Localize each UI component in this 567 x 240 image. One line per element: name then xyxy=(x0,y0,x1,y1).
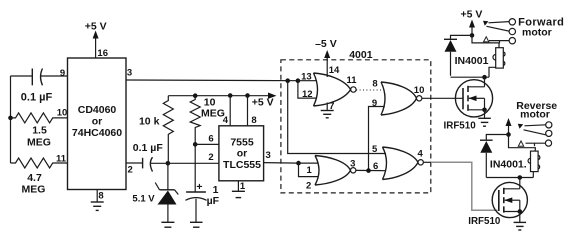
svg-text:16: 16 xyxy=(97,48,108,59)
resistor R4 10 MEG xyxy=(190,96,225,145)
svg-text:or: or xyxy=(92,116,103,128)
svg-text:3: 3 xyxy=(127,68,132,79)
svg-text:4.7: 4.7 xyxy=(27,172,42,184)
svg-text:IN4001: IN4001 xyxy=(455,55,489,67)
svg-text:11: 11 xyxy=(56,153,67,164)
wire U1 pin 3 to 4001 xyxy=(126,68,298,81)
svg-text:8: 8 xyxy=(98,191,103,202)
node source Q2 xyxy=(518,209,523,214)
terminal reverse bottom xyxy=(545,140,551,146)
svg-text:74HC4060: 74HC4060 xyxy=(72,127,122,139)
svg-text:MEG: MEG xyxy=(201,107,225,119)
svg-text:10 k: 10 k xyxy=(139,115,160,127)
svg-text:8: 8 xyxy=(251,115,256,126)
wire to gate U3C input 1 xyxy=(299,163,319,176)
NOR gate U3D xyxy=(383,147,424,180)
ground Q1 source xyxy=(478,110,491,126)
svg-text:–5 V: –5 V xyxy=(315,38,337,50)
resistor R3 10k xyxy=(139,96,173,164)
svg-text:2: 2 xyxy=(128,165,133,176)
svg-text:or: or xyxy=(237,148,248,160)
svg-text:6: 6 xyxy=(373,161,378,172)
svg-text:3: 3 xyxy=(265,150,270,161)
ground U1 pin 8 xyxy=(91,190,104,211)
capacitor C3 1uF electrolytic xyxy=(186,181,220,207)
node B junction R4/pin6 xyxy=(193,142,198,147)
diode D2 IN4001 xyxy=(444,39,489,76)
terminal reverse mid xyxy=(546,130,552,136)
wire node drain Q1 xyxy=(451,76,490,78)
svg-text:11: 11 xyxy=(346,75,357,86)
svg-text:+5 V: +5 V xyxy=(461,8,483,20)
terminal forward top xyxy=(509,19,515,25)
svg-text:CD4060: CD4060 xyxy=(78,104,117,116)
ground Q2 source xyxy=(514,212,527,231)
svg-text:9: 9 xyxy=(372,98,377,109)
svg-text:9: 9 xyxy=(60,68,65,79)
zener D1 5.1V xyxy=(132,163,178,204)
node drain Q2 junction xyxy=(518,175,523,180)
svg-text:0.1 µF: 0.1 µF xyxy=(21,92,53,104)
svg-text:14: 14 xyxy=(329,65,340,76)
label reverse motor xyxy=(516,100,557,121)
svg-text:1: 1 xyxy=(307,165,313,176)
+5V rail over 555 xyxy=(168,93,276,109)
wire U3D out 4 to Q2 gate xyxy=(423,161,431,163)
svg-text:2: 2 xyxy=(208,152,213,163)
wire U1 pin 2 xyxy=(126,163,143,176)
svg-text:10: 10 xyxy=(414,85,425,96)
+5V supply U1 pin 16 xyxy=(85,21,108,59)
wire U3C out 3 to U3D input 6 xyxy=(356,161,386,172)
NOR gate U3C xyxy=(315,156,356,186)
svg-text:1.5: 1.5 xyxy=(32,125,47,137)
+5V supply forward xyxy=(461,8,483,35)
svg-text:6: 6 xyxy=(208,134,213,145)
svg-text:TLC555: TLC555 xyxy=(223,159,261,171)
node rail/pin8 xyxy=(245,93,250,98)
wire node drain Q2 xyxy=(486,177,533,179)
relay coil K2 xyxy=(509,135,540,178)
IC U2 7555 box xyxy=(219,126,264,181)
terminal forward bottom xyxy=(509,38,515,44)
node +5V reverse xyxy=(506,132,511,137)
wire to gate U3A input 13 xyxy=(298,71,317,82)
svg-text:4001: 4001 xyxy=(349,49,373,61)
resistor R1 1.5 MEG xyxy=(11,108,68,149)
svg-text:IRF510: IRF510 xyxy=(444,120,477,131)
wire U2 pin 8 xyxy=(248,96,257,127)
node drain Q1 junction xyxy=(482,75,487,80)
wire U2 pin 4 xyxy=(223,96,230,127)
wire U2 pin 6 xyxy=(195,134,219,145)
MOSFET Q1 IRF510 xyxy=(444,77,493,131)
svg-text:5.1 V: 5.1 V xyxy=(132,193,155,204)
diode D3 IN4001 xyxy=(480,140,527,177)
relay contacts reverse xyxy=(518,124,546,147)
svg-text:+: + xyxy=(196,181,202,193)
wire U3A out 11 to U3B input 8 (dotted) xyxy=(356,79,384,90)
wire bracket to U3C input 2 xyxy=(299,163,319,191)
+5V supply reverse (arrow) xyxy=(506,118,512,135)
node rail/pin4 xyxy=(228,93,233,98)
svg-text:MEG: MEG xyxy=(27,136,51,148)
node A junction xyxy=(166,161,171,166)
wire +5V to D2 xyxy=(451,35,473,39)
wire U2 pin 2 xyxy=(168,152,219,163)
label forward motor xyxy=(518,16,564,38)
svg-text:13: 13 xyxy=(301,71,312,82)
wire node13 to U3D input 5 xyxy=(288,81,386,156)
svg-text:1: 1 xyxy=(240,181,246,192)
resistor R2 4.7 MEG xyxy=(11,153,68,195)
node pin3-wire / vertical-to-5 xyxy=(285,78,290,83)
wire left bus xyxy=(10,76,12,163)
node source Q1 xyxy=(482,108,487,113)
relay contacts forward xyxy=(483,21,509,44)
IC U1 CD4060 box xyxy=(68,58,127,190)
wire C2 to node A xyxy=(151,162,168,164)
node +5V forward xyxy=(470,33,475,38)
svg-text:IN4001.: IN4001. xyxy=(490,158,527,170)
svg-text:8: 8 xyxy=(372,79,377,90)
svg-text:motor: motor xyxy=(520,109,550,121)
node junction bus/R1 xyxy=(8,116,13,121)
svg-text:2: 2 xyxy=(306,181,311,192)
terminal forward mid xyxy=(509,28,515,34)
svg-text:IRF510: IRF510 xyxy=(468,216,501,227)
capacitor C2 0.1uF xyxy=(133,142,164,171)
node rail/R4 xyxy=(193,93,198,98)
svg-text:5: 5 xyxy=(372,144,378,155)
node pin3-wire / pin13 xyxy=(296,78,301,83)
svg-text:10: 10 xyxy=(57,108,68,119)
NOR gate U3A xyxy=(314,73,358,106)
4001 dashed package box xyxy=(281,49,431,193)
MOSFET Q2 IRF510 xyxy=(468,178,527,227)
-5V supply U3 pin 14 xyxy=(315,38,340,77)
wire node B to C3 xyxy=(194,144,196,192)
terminal reverse top xyxy=(546,122,552,128)
svg-text:4: 4 xyxy=(223,115,229,126)
node out3/pin9 junction xyxy=(366,168,371,173)
svg-text:4: 4 xyxy=(417,148,423,159)
svg-text:motor: motor xyxy=(522,26,552,38)
wire +5V to D3 xyxy=(486,135,508,141)
svg-text:MEG: MEG xyxy=(22,184,46,196)
ground U2 pin 1 xyxy=(232,181,246,198)
wire U2 pin 3 to 4001 xyxy=(264,150,299,163)
svg-text:µF: µF xyxy=(207,195,220,207)
wire U3B input 9 xyxy=(369,98,385,171)
svg-text:0.1 µF: 0.1 µF xyxy=(133,142,164,154)
ground U3 pin 7 xyxy=(321,101,335,118)
svg-text:3: 3 xyxy=(350,158,355,169)
relay coil K1 xyxy=(472,35,505,77)
ground D1 xyxy=(161,205,174,228)
svg-text:7: 7 xyxy=(329,101,334,112)
svg-text:+5 V: +5 V xyxy=(252,97,274,109)
wire U1 pin 9 xyxy=(11,68,68,79)
svg-text:12: 12 xyxy=(302,89,313,100)
wire U3B out 10 to Q1 gate xyxy=(422,97,463,99)
wire bracket to U3A input 12 xyxy=(298,81,317,100)
ground C3 xyxy=(190,199,203,227)
node pin3/555 wire junction xyxy=(296,161,301,166)
capacitor C1 0.1uF xyxy=(21,69,53,104)
NOR gate U3B xyxy=(381,82,424,115)
